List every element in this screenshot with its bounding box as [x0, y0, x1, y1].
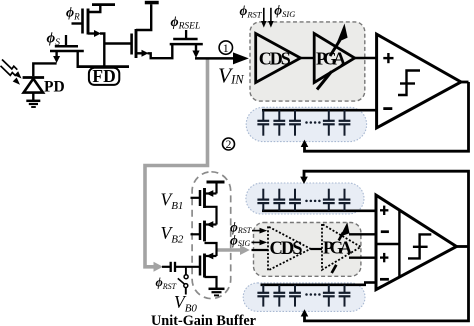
label V_B2: [161, 223, 184, 246]
label Unit-Gain Buffer: [151, 313, 256, 326]
node 2 circled: [223, 138, 235, 151]
divider vertical comp2: [398, 210, 400, 278]
capacitor bank B2b box: [243, 283, 365, 312]
svg-text:2: 2: [226, 139, 232, 151]
wire gray V_IN down-left to buffer input: [145, 60, 208, 267]
feedback wire comp2 loop: [304, 171, 469, 321]
svg-text:PD: PD: [44, 79, 65, 96]
wire VDD down: [215, 182, 217, 194]
arrowhead M1 source: [94, 30, 101, 37]
minus input mark comp1: [383, 107, 392, 110]
wire to photodiode: [33, 63, 56, 76]
arrow phi_SIG down: [268, 8, 274, 28]
transistor M3 source-follower gate bar: [130, 34, 133, 55]
arrowhead feedback into bank2a (down): [300, 177, 308, 184]
svg-text:CDS: CDS: [270, 239, 303, 259]
arrowhead feedback into bank1: [301, 140, 309, 147]
wire M3 source: [136, 52, 144, 54]
wire gray-arrow to cap: [162, 266, 171, 268]
capacitor C32: [273, 285, 285, 307]
arrowhead M3 source: [142, 50, 149, 57]
wire PGA1 to comparator plus input: [355, 57, 377, 59]
transistor T1 channel: [203, 188, 206, 208]
wire FD node: [77, 65, 130, 68]
switch contact circle top: [184, 275, 188, 279]
switch contact circle bottom: [184, 284, 188, 288]
amplifier PGA1: [314, 34, 355, 83]
FD label box: [89, 66, 119, 86]
svg-text:PGA: PGA: [316, 49, 346, 69]
wire T3 gate lead: [176, 266, 200, 268]
capacitor C22: [273, 189, 285, 211]
light arrow 1 into PD: [1, 60, 18, 77]
capacitor bank B2a box: [246, 183, 364, 214]
label phi_S: [47, 31, 61, 49]
hysteresis symbol comp1: [398, 71, 420, 96]
wire T2 source to output node and T3: [205, 243, 217, 256]
wire PGA2 output upper: [349, 233, 376, 235]
photodiode PD cathode bar: [23, 76, 44, 79]
wire T1 gate lead: [191, 197, 201, 199]
capacitor C33: [289, 285, 301, 307]
transistor M1 phi_R gate bar: [81, 9, 84, 34]
CDS/PGA block box (top, stage 1): [250, 22, 365, 101]
wire gray buffer output: [216, 248, 241, 252]
hysteresis symbol comp2: [408, 234, 431, 258]
wire T1 drain lead: [205, 192, 217, 194]
transistor M4 phi_RSEL channel: [170, 43, 203, 46]
arrowhead T3 source (points left): [206, 253, 213, 260]
wire bank2b to comparator minus2: [364, 281, 377, 284]
wire PGA2 output lower: [349, 257, 376, 259]
wire M1 source corner down to FD: [100, 34, 104, 67]
dots bank1: [305, 121, 320, 124]
label V_IN: [218, 64, 244, 88]
arrowhead feedback into bank2b (up): [301, 309, 309, 316]
transistor M1 channel: [87, 9, 90, 35]
label PGA2: [323, 238, 352, 258]
unit-gain buffer dashed box: [192, 172, 231, 299]
label phi_RST buffer: [156, 276, 177, 292]
gain arrow through PGA1 (lower slash): [317, 24, 348, 90]
capacitor C35: [339, 285, 351, 307]
transistor M3 channel: [135, 29, 138, 58]
wire switch to V_B0: [185, 288, 187, 295]
wire M1 source: [88, 32, 96, 34]
arrowhead M2 source (down): [53, 56, 60, 63]
arrowhead M4 source (down to V_IN): [192, 51, 199, 59]
label phi_RST (stage1): [240, 3, 263, 20]
wire M1 gate lead: [72, 22, 83, 24]
arrow phi_RST into CDS2: [252, 228, 267, 234]
transistor M4 gate bar: [173, 38, 197, 41]
transistor M2 channel: [50, 50, 84, 53]
amplifier CDS2 (dotted): [268, 226, 311, 270]
plus input 2 comp2: [380, 253, 388, 262]
feedback wire comp1 to bank1: [305, 82, 469, 151]
wire M2 source down: [55, 51, 57, 57]
wire M2 drain down to FD: [76, 51, 78, 67]
capacitor C34: [323, 285, 335, 307]
wire bank1 rail to comparator minus: [262, 109, 377, 112]
wire bank2a rail to comparator: [262, 209, 376, 212]
divider horizontal comp2: [376, 243, 399, 245]
switch phi_RST stem: [185, 267, 187, 275]
VDD bar (reset transistor): [92, 3, 115, 6]
wire T1 source to T2: [205, 207, 217, 225]
gain arrow through PGA1 (upper shaft): [330, 40, 340, 56]
wire comp2 output: [457, 245, 469, 248]
gray arrowhead into CDS2: [240, 245, 250, 255]
VDD bar buffer: [207, 181, 225, 184]
wire T3 source to ground: [205, 277, 217, 288]
transistor T3 channel: [203, 254, 206, 278]
capacitor C14: [323, 110, 335, 136]
gain arrow through PGA2 (upper shaft): [339, 233, 343, 241]
arrowhead T1 source (points left): [206, 190, 213, 197]
wire M4 source down: [195, 44, 197, 51]
ground under PD: [26, 100, 40, 103]
wire T2 gate lead: [191, 233, 201, 235]
transistor M2 gate bar: [55, 45, 78, 48]
amplifier CDS1: [256, 34, 301, 83]
wire M3 source to M4: [148, 44, 173, 58]
light arrow 2 head: [13, 78, 20, 85]
label V_B1: [161, 190, 184, 213]
label phi_SIG (stage1): [274, 2, 295, 19]
plus input 1 comp2: [380, 206, 388, 215]
label phi_RSEL: [171, 15, 201, 32]
label phi_R: [66, 6, 80, 22]
arrow phi_SIG into CDS2: [252, 240, 268, 246]
light arrow 2 into PD: [1, 66, 16, 76]
node 1 circled: [219, 41, 232, 55]
capacitor bank B1 box: [246, 107, 366, 141]
capacitor C15: [339, 110, 351, 136]
comparator A2 triangle: [376, 195, 457, 290]
comparator A1 triangle: [377, 34, 461, 128]
arrow phi_RST down: [261, 8, 267, 28]
capacitor C23: [289, 189, 301, 211]
arrowhead V_IN into CDS1: [233, 52, 249, 64]
wire CDS2 to PGA2: [311, 248, 323, 250]
label phi_RST (stage2): [230, 219, 252, 235]
wire bank2b rail to comparator: [261, 283, 367, 286]
wire CDS1 to PGA1: [301, 57, 315, 59]
dots bank2a: [305, 200, 320, 203]
label CDS1: [259, 49, 291, 69]
wire SF gate lead: [104, 42, 131, 44]
amplifier PGA2 (dotted): [322, 224, 361, 270]
plus input mark comp1: [383, 53, 393, 63]
capacitor coupling input plate 2: [174, 262, 176, 272]
minus input 1 comp2: [381, 230, 389, 233]
capacitor C12: [273, 110, 285, 136]
wire M3 drain to VDD: [136, 4, 151, 30]
label CDS2: [270, 239, 303, 259]
svg-text:1: 1: [223, 41, 229, 55]
capacitor C13: [289, 110, 301, 136]
gray arrowhead into buffer coupling cap: [154, 262, 164, 272]
transistor T3 gate bar: [199, 256, 202, 276]
transistor T2 channel: [203, 221, 206, 242]
transistor T1 V_B1 gate bar: [199, 190, 202, 206]
gain arrow through PGA2 (lower slash): [332, 222, 350, 273]
svg-text:FD: FD: [92, 66, 115, 86]
svg-text:CDS: CDS: [259, 49, 291, 69]
svg-text:Unit-Gain Buffer: Unit-Gain Buffer: [151, 313, 256, 326]
wire VDD to M1 drain: [88, 5, 100, 12]
label V_B0: [174, 292, 197, 315]
wire PD anode to ground: [32, 93, 34, 100]
wire T2 drain lead: [205, 223, 217, 225]
label phi_SIG (stage2): [230, 233, 250, 249]
label PGA1: [316, 49, 346, 69]
capacitor C25: [339, 189, 351, 211]
light arrow 1 head: [14, 71, 21, 78]
transistor T2 V_B2 gate bar: [199, 223, 202, 240]
wire T3 drain lead: [205, 255, 217, 257]
switch lever: [178, 278, 185, 284]
capacitor C21: [257, 189, 269, 211]
ground buffer: [209, 288, 225, 291]
CDS/PGA block box (bottom, stage 2): [254, 223, 361, 277]
capacitor C11: [257, 110, 269, 136]
capacitor C31: [257, 285, 269, 307]
capacitor coupling input plate 1: [170, 262, 172, 272]
wire M4 gate tick: [185, 30, 187, 39]
dots bank2b: [305, 293, 320, 296]
minus input 2 comp2: [380, 278, 389, 281]
wire V_IN node: [195, 57, 236, 60]
capacitor C24: [323, 189, 335, 211]
VDD bar (source follower): [145, 1, 159, 5]
wire comp1 output: [461, 81, 469, 84]
wire buffer output stub into CDS2: [252, 249, 269, 251]
arrowhead T2 source (points left): [206, 221, 213, 228]
photodiode PD triangle: [24, 79, 43, 93]
transistor M2 phi_S gate tick: [65, 35, 67, 46]
svg-text:PGA: PGA: [323, 238, 352, 258]
label PD: [44, 79, 65, 96]
